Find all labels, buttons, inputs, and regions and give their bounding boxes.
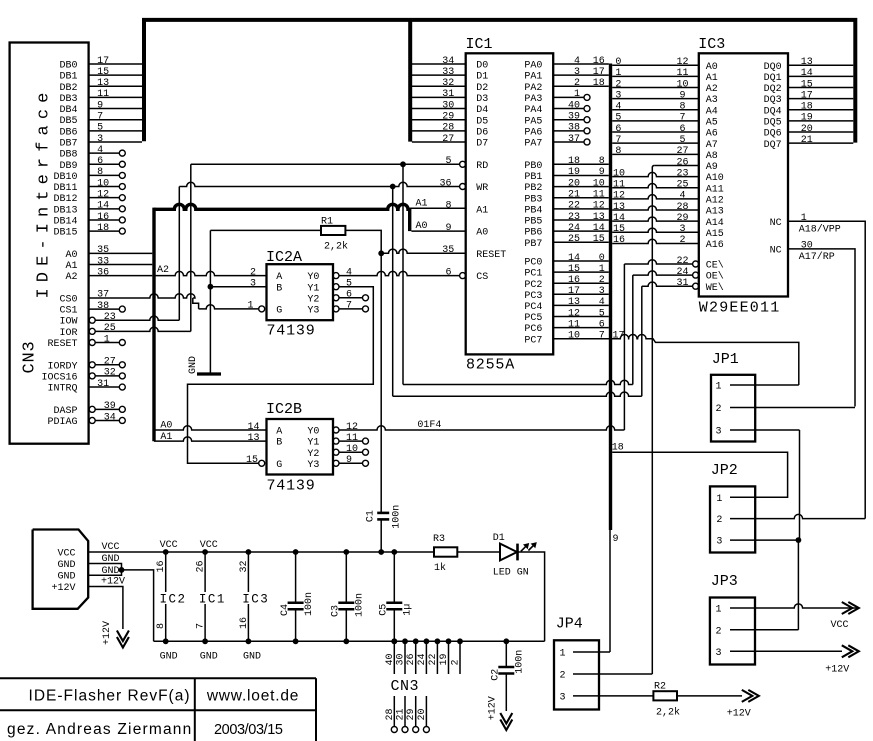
- open end circle DB13: [119, 206, 125, 212]
- stub PDIAG: [95, 419, 119, 421]
- svg-text:PB2: PB2: [524, 183, 542, 194]
- junction C2: [503, 638, 509, 644]
- wire D6: [412, 130, 466, 132]
- svg-text:5: 5: [599, 308, 605, 319]
- svg-text:12: 12: [593, 201, 605, 212]
- svg-text:2: 2: [574, 78, 580, 89]
- wire PB6 to bus: [553, 230, 609, 232]
- stub PA3 n.c.: [553, 96, 584, 98]
- IC2B Y3 bubble: [333, 460, 339, 466]
- svg-text:Y3: Y3: [307, 306, 319, 317]
- wire down to JP3.2: [797, 540, 799, 630]
- svg-text:Y3: Y3: [307, 460, 319, 471]
- svg-text:8: 8: [615, 146, 621, 157]
- svg-text:D0: D0: [476, 61, 488, 72]
- svg-text:6: 6: [615, 124, 621, 135]
- svg-text:DB5: DB5: [59, 116, 77, 127]
- wire A2 to control bus: [89, 275, 153, 277]
- open end circle Y3: [363, 306, 369, 312]
- svg-text:17: 17: [97, 56, 109, 67]
- svg-text:24: 24: [417, 653, 428, 665]
- wire CE vertical: [623, 264, 625, 430]
- svg-text:A10: A10: [706, 173, 724, 184]
- svg-text:A0: A0: [706, 62, 718, 73]
- wire DQ2 to data bus: [788, 86, 853, 88]
- wire R2 to +12V arrow: [677, 695, 742, 697]
- svg-text:8: 8: [445, 201, 451, 212]
- open end circle CS1: [119, 306, 125, 312]
- svg-text:1: 1: [104, 334, 110, 345]
- svg-text:PC0: PC0: [524, 258, 542, 269]
- svg-text:D1: D1: [493, 533, 505, 544]
- svg-text:13: 13: [801, 57, 813, 68]
- svg-text:GND: GND: [188, 356, 199, 374]
- wire IC2A Y1 to IC2B G: [188, 287, 374, 464]
- svg-text:R2: R2: [654, 682, 666, 693]
- svg-text:D6: D6: [476, 127, 488, 138]
- svg-text:G: G: [276, 460, 282, 471]
- svg-text:2,2k: 2,2k: [324, 241, 348, 253]
- svg-text:19: 19: [439, 653, 450, 665]
- svg-text:5: 5: [445, 156, 451, 167]
- wire PB7 to bus: [553, 241, 609, 243]
- wire PB5 to bus: [553, 219, 609, 221]
- wire D5: [412, 119, 466, 121]
- stub DB9: [89, 163, 120, 165]
- wire GND rail: [154, 640, 545, 642]
- svg-text:21: 21: [801, 135, 813, 146]
- wire A4 from bus: [612, 109, 699, 111]
- wire JP3.1 to VCC arrow: [730, 604, 859, 608]
- svg-text:C5: C5: [379, 604, 390, 616]
- open end circle Y1: [363, 438, 369, 444]
- svg-text:A0: A0: [476, 228, 488, 239]
- wire JP4.3 to R2: [573, 695, 653, 697]
- svg-text:25: 25: [104, 323, 116, 334]
- svg-text:D7: D7: [476, 139, 488, 150]
- svg-text:IC2: IC2: [160, 593, 187, 607]
- IC2A Y1 bubble: [333, 284, 339, 290]
- stub CS1: [89, 308, 120, 310]
- stub DB14: [89, 219, 120, 221]
- svg-text:6: 6: [97, 156, 103, 167]
- IC2A Y2 bubble: [333, 295, 339, 301]
- svg-text:3: 3: [97, 134, 103, 145]
- wire A1: [410, 207, 466, 209]
- svg-text:6: 6: [346, 290, 352, 301]
- svg-text:A5: A5: [706, 118, 718, 129]
- wire A8 from bus: [612, 153, 699, 155]
- wire D1: [412, 74, 466, 76]
- wire JP1.2 to A17/RP: [730, 407, 855, 409]
- svg-text:3: 3: [615, 90, 621, 101]
- svg-text:5: 5: [346, 279, 352, 290]
- svg-text:10: 10: [613, 168, 625, 179]
- svg-text:100n: 100n: [515, 650, 526, 674]
- IC1 CS bubble: [460, 273, 466, 279]
- svg-text:D1: D1: [476, 72, 488, 83]
- stub PA6 n.c.: [553, 130, 584, 132]
- stub DB12: [89, 197, 120, 199]
- svg-text:1: 1: [716, 605, 722, 616]
- svg-text:11: 11: [346, 433, 358, 444]
- svg-text:Y0: Y0: [307, 272, 319, 283]
- wire PC4 to bus: [553, 304, 609, 306]
- svg-text:3: 3: [574, 67, 580, 78]
- svg-text:DB8: DB8: [59, 150, 77, 161]
- D1 cathode bar: [516, 544, 519, 561]
- open end circle DB10: [119, 172, 125, 178]
- svg-text:PB0: PB0: [524, 161, 542, 172]
- svg-text:27: 27: [104, 357, 116, 368]
- wire R1 right to RESET node and C1: [345, 230, 381, 253]
- wire WR from IOW corner to IC1: [179, 182, 459, 186]
- resistor R2 2,2k: [653, 691, 677, 700]
- svg-text:15: 15: [97, 67, 109, 78]
- svg-text:Y2: Y2: [307, 449, 319, 460]
- svg-text:RESET: RESET: [47, 339, 77, 350]
- wire CE: [624, 260, 692, 264]
- svg-text:39: 39: [568, 112, 580, 123]
- svg-text:DQ6: DQ6: [764, 129, 782, 140]
- open end circle DB11: [119, 184, 125, 190]
- svg-text:27: 27: [442, 134, 454, 145]
- svg-text:21: 21: [396, 708, 407, 720]
- svg-text:17: 17: [593, 67, 605, 78]
- svg-text:8: 8: [156, 623, 167, 629]
- svg-text:PC7: PC7: [524, 335, 542, 346]
- svg-text:23: 23: [676, 168, 688, 179]
- wire A2 from bus: [612, 86, 699, 88]
- svg-text:32: 32: [104, 368, 116, 379]
- resistor R3 1k: [434, 547, 457, 556]
- svg-text:www.loet.de: www.loet.de: [206, 688, 299, 705]
- svg-text:12: 12: [97, 189, 109, 200]
- svg-text:14: 14: [593, 223, 605, 234]
- svg-text:14: 14: [613, 213, 625, 224]
- svg-text:D2: D2: [476, 83, 488, 94]
- CN3 stub pin 30: [404, 641, 406, 674]
- IC3 CE\ bubble: [693, 261, 699, 267]
- svg-text:37: 37: [97, 290, 109, 301]
- svg-text:PC6: PC6: [524, 324, 542, 335]
- wire A2 from control bus to IC2A.A: [154, 271, 266, 275]
- svg-text:11: 11: [676, 68, 688, 79]
- svg-text:A13: A13: [706, 207, 724, 218]
- wire PB3 to bus: [553, 197, 609, 199]
- svg-text:C3: C3: [331, 605, 342, 617]
- svg-text:4: 4: [574, 56, 580, 67]
- svg-text:DB3: DB3: [59, 94, 77, 105]
- svg-text:PB6: PB6: [524, 228, 542, 239]
- CN3 stub pin 28: [393, 696, 395, 727]
- memory IC3 W29EE011 box: [699, 53, 788, 296]
- wire PA0 to bus: [553, 63, 609, 65]
- wire RD net to IC3 OE: [402, 164, 404, 384]
- svg-text:24: 24: [676, 267, 688, 278]
- title block: [0, 677, 316, 679]
- svg-text:1: 1: [801, 213, 807, 224]
- svg-text:4: 4: [97, 145, 103, 156]
- svg-text:DB1: DB1: [59, 72, 77, 83]
- connector CN3 IDE-Interface box: [10, 43, 89, 444]
- svg-text:38: 38: [97, 301, 109, 312]
- svg-text:7: 7: [599, 331, 605, 342]
- svg-text:1: 1: [574, 89, 580, 100]
- LED arrows: [521, 546, 527, 552]
- wire PC0 to bus: [553, 260, 609, 262]
- svg-text:16: 16: [97, 212, 109, 223]
- CN3 stub pin 19: [448, 641, 450, 674]
- junction B/GND net: [208, 284, 214, 290]
- svg-text:13: 13: [247, 433, 259, 444]
- svg-text:8: 8: [679, 102, 685, 113]
- decoder IC2B box: [267, 419, 334, 475]
- svg-text:GND: GND: [160, 652, 178, 663]
- svg-text:35: 35: [442, 245, 454, 256]
- svg-text:17: 17: [568, 286, 580, 297]
- svg-text:D5: D5: [476, 116, 488, 127]
- svg-text:12: 12: [613, 191, 625, 202]
- wire PB4 to bus: [553, 208, 609, 210]
- svg-text:12: 12: [568, 308, 580, 319]
- capacitor C3 100n: [345, 552, 347, 603]
- svg-text:A17/RP: A17/RP: [799, 251, 835, 263]
- svg-text:3: 3: [716, 427, 722, 438]
- svg-text:GND: GND: [57, 572, 75, 583]
- wire DQ1 to data bus: [788, 75, 853, 77]
- control bus (A0/A1/A2, thick L): [154, 204, 410, 209]
- svg-text:19: 19: [801, 113, 813, 124]
- svg-text:16: 16: [568, 275, 580, 286]
- wire A9 from JP4.2 vertical: [654, 164, 699, 166]
- svg-text:4: 4: [599, 297, 605, 308]
- IC2A Y0 bubble: [333, 273, 339, 279]
- open end circle PA3: [584, 94, 590, 100]
- svg-text:IDE-Interface: IDE-Interface: [34, 87, 53, 299]
- svg-text:7: 7: [196, 623, 207, 629]
- svg-text:Y2: Y2: [307, 294, 319, 305]
- svg-text:3: 3: [560, 693, 566, 704]
- svg-text:16: 16: [156, 560, 167, 572]
- wire PA2 to bus: [553, 85, 609, 87]
- svg-text:B: B: [276, 283, 282, 294]
- open end circle INTRQ: [119, 384, 125, 390]
- svg-text:CS: CS: [476, 272, 488, 283]
- open end circle PDIAG: [119, 417, 125, 423]
- +12V down arrow (C2): [500, 720, 512, 731]
- open end circle Y3: [363, 460, 369, 466]
- CN3 IORDY bubble: [89, 362, 95, 368]
- wire RESET net: [381, 249, 466, 253]
- svg-text:3: 3: [599, 286, 605, 297]
- svg-text:14: 14: [801, 68, 813, 79]
- svg-text:WE\: WE\: [706, 282, 724, 294]
- svg-text:+12V: +12V: [102, 621, 113, 645]
- svg-text:5: 5: [97, 123, 103, 134]
- svg-text:19: 19: [568, 167, 580, 178]
- connector power plug: [33, 530, 89, 609]
- stub RESET: [95, 342, 119, 344]
- svg-text:20: 20: [801, 124, 813, 135]
- stub IORDY: [95, 364, 119, 366]
- svg-text:INTRQ: INTRQ: [47, 384, 77, 395]
- svg-text:28: 28: [442, 123, 454, 134]
- open end circle PA5: [584, 117, 590, 123]
- svg-text:74139: 74139: [267, 323, 316, 340]
- wire DB1 to data bus: [89, 74, 142, 76]
- svg-text:NC: NC: [770, 246, 782, 257]
- IC2B G bubble: [259, 460, 265, 466]
- svg-text:29: 29: [676, 213, 688, 224]
- stub PA4 n.c.: [553, 108, 584, 110]
- svg-text:PC2: PC2: [524, 280, 542, 291]
- svg-text:IOW: IOW: [59, 317, 77, 328]
- svg-text:18: 18: [97, 223, 109, 234]
- svg-text:35: 35: [97, 245, 109, 256]
- wire DQ5 to data bus: [788, 120, 853, 122]
- svg-text:A12: A12: [706, 195, 724, 206]
- +12V arrow: [848, 645, 859, 657]
- svg-text:RD: RD: [476, 161, 488, 172]
- IC2B Y1 bubble: [333, 438, 339, 444]
- wire DQ3 to data bus: [788, 98, 853, 100]
- svg-text:3: 3: [679, 224, 685, 235]
- wire A18/VPP: [788, 221, 865, 518]
- svg-text:33: 33: [442, 67, 454, 78]
- JP1 pin1 line to net 17: [730, 384, 799, 386]
- svg-text:A3: A3: [706, 95, 718, 106]
- svg-text:IC3: IC3: [242, 593, 269, 607]
- wire A14 from bus: [612, 217, 699, 221]
- svg-text:27: 27: [676, 146, 688, 157]
- stub PA5 n.c.: [553, 119, 584, 121]
- junction RD branch: [400, 161, 406, 167]
- svg-text:25: 25: [568, 234, 580, 245]
- svg-text:21: 21: [568, 190, 580, 201]
- wire DB7 to data bus: [89, 141, 142, 143]
- jumper JP4: [554, 640, 599, 709]
- IC2A G bubble: [259, 306, 265, 312]
- svg-text:74139: 74139: [267, 477, 316, 494]
- wire 01F4: IC2B Y0 to IC3 CE vertical: [339, 426, 624, 430]
- svg-text:DB12: DB12: [53, 194, 77, 205]
- open end circle DB9: [119, 161, 125, 167]
- svg-text:9: 9: [346, 455, 352, 466]
- svg-text:IDE-Flasher RevF(a): IDE-Flasher RevF(a): [29, 688, 191, 705]
- wire A10 from bus: [612, 172, 699, 176]
- svg-text:29: 29: [442, 112, 454, 123]
- open end circle IOCS16: [119, 373, 125, 379]
- svg-text:A1: A1: [65, 261, 77, 272]
- svg-text:WR: WR: [476, 183, 488, 194]
- svg-text:33: 33: [97, 256, 109, 267]
- wire PC5 to bus: [553, 316, 609, 318]
- CN3 IOR bubble: [89, 328, 95, 334]
- svg-text:2: 2: [679, 235, 685, 246]
- address bus (vertical, thick): [609, 64, 612, 531]
- wire IOW (23) to WR vertical: [95, 316, 179, 320]
- svg-text:17: 17: [801, 90, 813, 101]
- svg-text:IC1: IC1: [466, 36, 493, 53]
- wire A0: [411, 230, 465, 232]
- svg-text:31: 31: [676, 278, 688, 289]
- svg-text:W29EE011: W29EE011: [699, 300, 781, 317]
- svg-text:DQ7: DQ7: [764, 140, 782, 151]
- wire JP3.3 to +12V arrow: [730, 650, 842, 652]
- svg-text:1k: 1k: [434, 562, 446, 574]
- svg-text:CN3: CN3: [20, 340, 39, 373]
- svg-text:18: 18: [612, 443, 624, 454]
- svg-text:DQ5: DQ5: [764, 118, 782, 129]
- IC1 RD bubble: [460, 161, 466, 167]
- svg-text:PA1: PA1: [524, 72, 542, 83]
- svg-text:3: 3: [716, 648, 722, 659]
- svg-text:14: 14: [568, 253, 580, 264]
- CN3 stub pin 24: [425, 641, 427, 674]
- svg-text:7: 7: [346, 301, 352, 312]
- svg-text:23: 23: [104, 312, 116, 323]
- svg-text:16: 16: [593, 56, 605, 67]
- wire D7: [412, 141, 466, 143]
- wire A1 to control bus: [89, 264, 153, 266]
- svg-text:IOCS16: IOCS16: [41, 372, 77, 383]
- CN3 stub pin 2: [459, 641, 461, 674]
- svg-text:7: 7: [97, 112, 103, 123]
- svg-text:DB9: DB9: [59, 161, 77, 172]
- svg-text:D4: D4: [476, 105, 488, 116]
- wire A5 from bus: [612, 120, 699, 122]
- svg-text:100n: 100n: [392, 505, 403, 529]
- arc corner A9 vertical: [652, 165, 654, 167]
- svg-text:9: 9: [97, 100, 103, 111]
- wire PB0 to bus: [553, 163, 609, 165]
- wire PB2 to bus: [553, 186, 609, 188]
- svg-text:DQ2: DQ2: [764, 84, 782, 95]
- svg-text:6: 6: [599, 319, 605, 330]
- svg-text:12: 12: [676, 57, 688, 68]
- svg-text:Y1: Y1: [307, 438, 319, 449]
- svg-text:11: 11: [97, 89, 109, 100]
- svg-text:36: 36: [439, 178, 451, 189]
- IC3 WE\ bubble: [693, 283, 699, 289]
- wire DQ7 to data bus: [788, 142, 853, 144]
- wire PC1 to bus: [553, 271, 609, 273]
- svg-text:A: A: [276, 427, 282, 438]
- svg-text:PC5: PC5: [524, 313, 542, 324]
- svg-text:CN3: CN3: [391, 678, 420, 695]
- wire net 18 from bus to JP2.1: [612, 452, 787, 497]
- wire PC3 to bus: [553, 293, 609, 295]
- svg-text:PB4: PB4: [524, 205, 542, 216]
- svg-text:A15: A15: [706, 229, 724, 240]
- svg-text:8: 8: [599, 156, 605, 167]
- svg-text:13: 13: [568, 297, 580, 308]
- stub DB15: [89, 230, 120, 232]
- wire D4: [412, 108, 466, 110]
- open end circle Y2: [363, 449, 369, 455]
- svg-text:28: 28: [676, 202, 688, 213]
- svg-text:9: 9: [599, 167, 605, 178]
- svg-text:9: 9: [613, 534, 619, 545]
- R1 left wire / GND vertical: [209, 230, 211, 374]
- wire DQ0 to data bus: [788, 64, 853, 66]
- svg-text:10: 10: [593, 178, 605, 189]
- svg-text:15: 15: [801, 79, 813, 90]
- svg-text:PA5: PA5: [524, 116, 542, 127]
- svg-text:2: 2: [560, 671, 566, 682]
- svg-text:20: 20: [568, 178, 580, 189]
